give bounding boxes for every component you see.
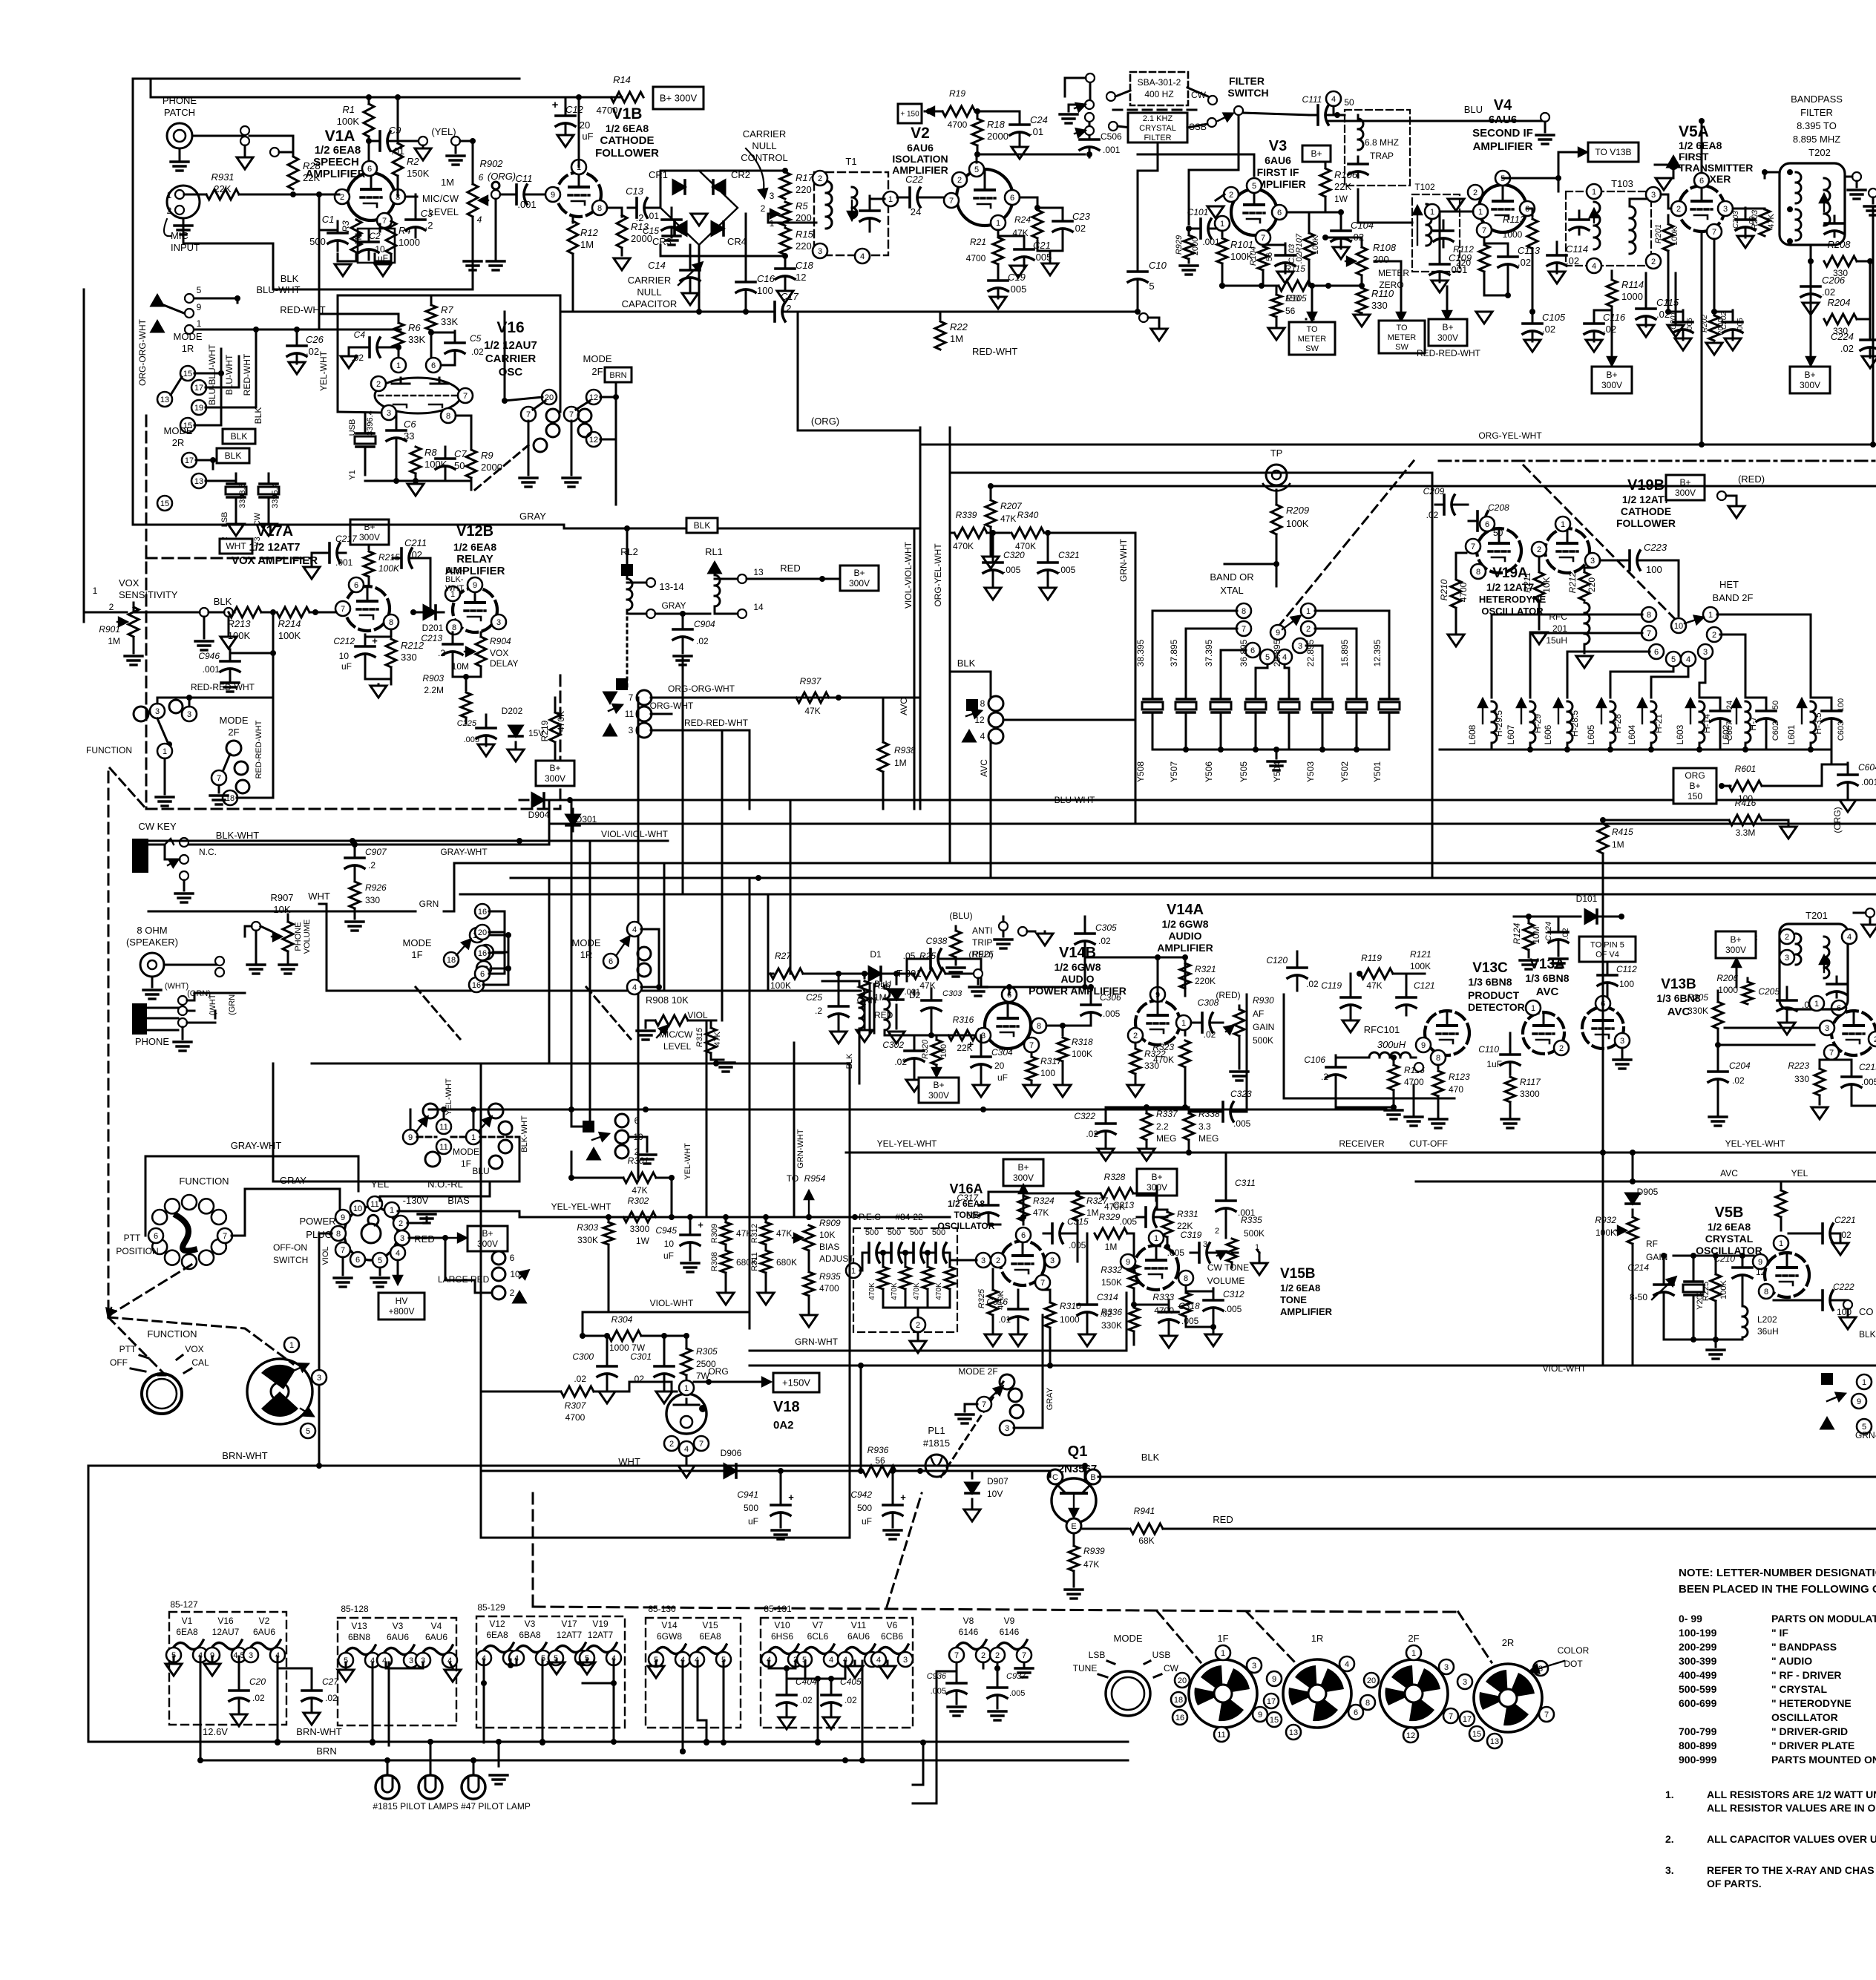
svg-text:VIOL: VIOL (687, 1010, 708, 1020)
svg-text:6: 6 (1354, 1708, 1358, 1717)
svg-text:1R: 1R (182, 343, 194, 354)
svg-text:1/2 12AT7: 1/2 12AT7 (1622, 494, 1670, 505)
ground (228, 508, 244, 536)
capacitor C1 (309, 194, 347, 251)
svg-text:C314: C314 (1097, 1292, 1118, 1302)
pin 2 t201 (1780, 929, 1794, 944)
svg-text:+: + (356, 229, 362, 241)
svg-text:PHONE: PHONE (163, 95, 197, 106)
svg-text:T102: T102 (1414, 182, 1435, 192)
label RF GAIN (1646, 1239, 1667, 1262)
wire vert 648 (480, 1063, 482, 1538)
pin 4 pp (390, 1245, 405, 1260)
svg-text:H-29.5: H-29.5 (1494, 710, 1504, 737)
svg-text:OSC: OSC (499, 366, 523, 378)
svg-text:ORG-WHT: ORG-WHT (650, 701, 694, 711)
pin 2 (371, 376, 386, 391)
socket V4 (416, 1621, 457, 1668)
pin 7 (1477, 223, 1492, 237)
label CONN right (1859, 1306, 1874, 1317)
resistor R201 (1654, 215, 1679, 315)
svg-text:C104: C104 (1351, 220, 1374, 231)
svg-text:C304: C304 (991, 1047, 1013, 1058)
crystal Y501 (1372, 639, 1400, 782)
label FUNCTION (86, 745, 132, 755)
svg-text:C: C (1052, 1473, 1058, 1482)
svg-text:B+: B+ (1017, 1162, 1029, 1173)
capacitors PEC 500 (860, 1228, 948, 1271)
wire mode2r (196, 457, 236, 481)
svg-text:R210: R210 (1439, 579, 1449, 600)
svg-text:CATHODE: CATHODE (600, 134, 654, 147)
contact 3a (150, 698, 165, 718)
svg-text:3: 3 (1651, 191, 1656, 200)
label (WHT) (GRN) speaker (165, 982, 211, 998)
svg-text:GRAY: GRAY (661, 600, 686, 611)
svg-text:3: 3 (496, 618, 501, 627)
svg-text:" DRIVER PLATE: " DRIVER PLATE (1771, 1740, 1854, 1751)
pin 2 (813, 171, 827, 186)
wire 129 wiring (481, 1659, 617, 1745)
label R902 (ORG) (479, 158, 516, 182)
svg-text:PHONE: PHONE (294, 922, 303, 951)
pin 1 (1473, 204, 1488, 219)
svg-text:15: 15 (160, 499, 169, 508)
svg-text:.005: .005 (464, 735, 479, 744)
capacitor C303 (905, 988, 963, 1021)
socket V3 (377, 1621, 419, 1668)
vertical label Y3 (253, 537, 262, 546)
pot R5 (761, 191, 812, 229)
svg-text:12AU7: 12AU7 (212, 1627, 240, 1637)
plug circle (344, 1207, 398, 1260)
vertical label VIOL pp (321, 1246, 330, 1265)
svg-text:H-7: H-7 (1748, 716, 1758, 731)
ground (969, 987, 987, 996)
svg-text:R24: R24 (1014, 214, 1031, 225)
vertical label AVC x (979, 759, 989, 777)
svg-text:C11: C11 (516, 173, 533, 184)
inductor L604 (1627, 699, 1664, 750)
socket V2 (243, 1616, 285, 1662)
svg-text:9: 9 (197, 302, 202, 312)
ground (983, 557, 999, 568)
svg-text:10M: 10M (1531, 926, 1541, 943)
ground (678, 1466, 695, 1478)
svg-text:MIC/CW: MIC/CW (659, 1029, 693, 1040)
ground (1536, 135, 1554, 144)
ground (777, 291, 793, 303)
svg-text:1: 1 (1561, 520, 1565, 529)
note row (1679, 1697, 1852, 1709)
pin 1 (571, 160, 586, 174)
label VIOL mid (687, 1010, 708, 1020)
svg-text:BRN-WHT: BRN-WHT (296, 1726, 341, 1737)
svg-text:CR1: CR1 (649, 169, 668, 180)
svg-text:L601: L601 (1786, 724, 1797, 744)
resistor R936 (863, 1445, 972, 1476)
diode D301 (566, 809, 597, 831)
svg-text:Y503: Y503 (1305, 761, 1316, 782)
ground (1520, 960, 1538, 969)
svg-text:10K: 10K (1541, 577, 1552, 592)
contact col 6 (492, 1251, 515, 1265)
ground (174, 1042, 191, 1051)
svg-text:.005: .005 (1233, 1118, 1251, 1129)
ground (1586, 340, 1602, 352)
transformer T103 box (1566, 178, 1651, 266)
pin 3 ptt (312, 1370, 327, 1385)
switch arm fn (157, 718, 172, 747)
pin 8 (447, 620, 462, 635)
svg-text:.001: .001 (517, 199, 536, 210)
connector (451, 137, 476, 153)
wire org-org-wht (132, 524, 134, 526)
pin dots T202 (1787, 169, 1793, 244)
wire T103 (1630, 199, 1647, 206)
svg-text:C120: C120 (1266, 955, 1288, 966)
svg-text:N.O.-RL: N.O.-RL (427, 1179, 463, 1190)
svg-text:T103: T103 (1611, 178, 1633, 189)
ground (1725, 338, 1741, 350)
svg-text:3: 3 (400, 1234, 404, 1243)
svg-text:uF: uF (862, 1516, 872, 1527)
svg-text:4: 4 (829, 1656, 833, 1665)
pin 7 v16a (1035, 1275, 1050, 1290)
contact 12x (974, 712, 1003, 727)
diode D904 (519, 793, 586, 820)
wire socket 128 drops (370, 1662, 389, 1745)
wire m2f (210, 698, 273, 804)
wire C9 to R2 (399, 140, 422, 142)
svg-text:12.395: 12.395 (1372, 639, 1383, 666)
pot R108 meter zero (1322, 235, 1409, 290)
wire cathode (379, 224, 381, 232)
resistor R215 (364, 545, 400, 577)
wire col (445, 1238, 492, 1293)
ground (1161, 1336, 1177, 1348)
svg-text:BRN: BRN (316, 1745, 336, 1757)
svg-text:11: 11 (625, 709, 634, 719)
resistor R? v5b (1776, 1181, 1786, 1230)
contact 3 xtal (1293, 638, 1308, 653)
lamp #1815 a (375, 1775, 399, 1799)
wire bus 1495 (429, 1107, 1386, 1112)
contact right3 (1821, 1418, 1872, 1434)
label RL2 (620, 546, 638, 557)
svg-text:YEL-WHT: YEL-WHT (318, 350, 329, 391)
svg-text:1000: 1000 (399, 237, 420, 248)
svg-text:R211: R211 (1522, 572, 1532, 593)
box 85-131 (761, 1604, 913, 1728)
svg-text:.2: .2 (815, 1006, 822, 1016)
wire bus E (148, 863, 454, 911)
svg-text:L607: L607 (1506, 724, 1516, 744)
svg-text:.005: .005 (1103, 1009, 1121, 1019)
resistor R21 (966, 230, 1003, 264)
svg-text:CARRIER: CARRIER (628, 275, 672, 286)
svg-text:RED: RED (1213, 1514, 1233, 1525)
ground (1277, 270, 1293, 283)
svg-text:2: 2 (510, 1288, 515, 1298)
svg-text:500: 500 (865, 1228, 879, 1237)
svg-text:47K: 47K (776, 1228, 792, 1239)
svg-text:3: 3 (1298, 642, 1302, 651)
svg-text:3.3M: 3.3M (1736, 827, 1756, 838)
capacitor C112 (1598, 962, 1637, 998)
svg-text:BLK-: BLK- (1859, 1329, 1876, 1340)
svg-text:3: 3 (770, 191, 775, 201)
svg-text:6AU6: 6AU6 (425, 1632, 447, 1642)
svg-text:V9: V9 (1004, 1616, 1015, 1626)
resistor R3 (341, 220, 364, 252)
label V13A (1525, 957, 1569, 998)
svg-text:.001: .001 (335, 557, 353, 568)
inductor L605 (1586, 699, 1623, 750)
label OFF-ON SWITCH (273, 1242, 308, 1265)
wire coil 6 (1567, 652, 1650, 698)
ground (156, 797, 174, 806)
contact 6 het (1649, 644, 1664, 659)
switch marks (604, 678, 628, 735)
label V16A (938, 1181, 995, 1231)
contact 7 het (1641, 626, 1656, 640)
svg-text:8: 8 (1476, 568, 1480, 577)
pin 7 (944, 193, 959, 208)
contact 4 het (1681, 652, 1696, 666)
resistor R931 (184, 171, 319, 200)
label BLU (1464, 104, 1483, 115)
rotary 2F (1360, 1633, 1458, 1743)
svg-text:AMPLIFIER: AMPLIFIER (892, 164, 948, 176)
svg-text:C222: C222 (1833, 1282, 1854, 1292)
box 85-127 (169, 1599, 286, 1725)
svg-text:R19: R19 (949, 88, 965, 99)
svg-text:.005: .005 (1224, 1304, 1242, 1314)
pin 6 pp (350, 1252, 365, 1267)
ground (195, 617, 213, 650)
svg-text:BLK: BLK (957, 658, 976, 669)
svg-text:R304: R304 (611, 1314, 633, 1325)
contact 1 het (1703, 607, 1718, 622)
wire xtal 8 (1152, 611, 1237, 672)
svg-text:C16: C16 (757, 273, 775, 284)
svg-text:33K: 33K (408, 334, 425, 345)
wire V5A in (1661, 194, 1671, 209)
ground (231, 1714, 247, 1726)
wire grnwht vert (793, 1043, 796, 1217)
svg-text:470: 470 (1449, 1084, 1463, 1095)
svg-text:85-130: 85-130 (648, 1604, 676, 1614)
switch MODE 2F bot (958, 1366, 997, 1377)
svg-text:56: 56 (1265, 252, 1274, 261)
svg-text:C201: C201 (1670, 312, 1678, 330)
svg-text:" BANDPASS: " BANDPASS (1771, 1641, 1837, 1653)
svg-text:85-129: 85-129 (477, 1602, 505, 1613)
resistor R211 (1522, 557, 1552, 629)
inductor L606 (1543, 699, 1580, 750)
ground (1675, 338, 1691, 350)
svg-text:300V: 300V (849, 578, 870, 589)
capacitor C323 (1189, 994, 1252, 1129)
svg-text:1/2 6EA8: 1/2 6EA8 (453, 541, 497, 553)
svg-text:PTT: PTT (124, 1233, 141, 1243)
svg-text:HET: HET (1719, 579, 1739, 590)
svg-text:uF: uF (663, 1250, 674, 1261)
svg-text:100: 100 (1040, 1068, 1055, 1078)
rotary 2R (1457, 1637, 1554, 1748)
svg-text:MEG: MEG (1198, 1133, 1219, 1144)
svg-text:C300: C300 (572, 1351, 594, 1362)
label RECEIVER CUT-OFF (1339, 1138, 1448, 1149)
switch MODE 1F mid-left (403, 937, 432, 960)
box B+300V rl (840, 566, 879, 591)
capacitor C907 (345, 846, 387, 880)
pin 6 (349, 577, 364, 592)
wire dash gang2 (1521, 463, 1676, 620)
ground (171, 148, 188, 171)
svg-text:8: 8 (389, 618, 393, 627)
svg-text:200-299: 200-299 (1679, 1641, 1717, 1653)
contact 5 (185, 285, 202, 303)
resistor R117 (1505, 1077, 1541, 1117)
wire osc bottom (365, 473, 471, 490)
svg-text:.005: .005 (1008, 283, 1026, 295)
resistor R305 (681, 1336, 718, 1382)
svg-text:3: 3 (1785, 954, 1789, 963)
svg-text:C21: C21 (1033, 240, 1051, 251)
svg-text:R937: R937 (800, 676, 822, 686)
capacitor C217 (312, 534, 358, 568)
wire relay top (624, 525, 630, 564)
label GRAY p (280, 1175, 306, 1186)
svg-text:C938: C938 (926, 936, 948, 946)
svg-text:100K: 100K (1670, 226, 1679, 245)
ground (1055, 1085, 1071, 1097)
connector anti2 (1018, 927, 1035, 936)
pin 3 (1820, 1020, 1834, 1035)
svg-text:V10: V10 (774, 1620, 790, 1630)
socket V16 (205, 1616, 246, 1662)
socket V11 (838, 1620, 879, 1667)
svg-text:8: 8 (336, 1230, 341, 1239)
wire org-wht (651, 714, 750, 809)
resistor R308 (710, 1250, 757, 1291)
wire anti trip link (1003, 916, 1005, 918)
label RED rl (780, 563, 800, 574)
svg-text:D905: D905 (1637, 1187, 1659, 1197)
svg-text:100K: 100K (1311, 235, 1320, 254)
pin 2 pp (393, 1216, 408, 1230)
svg-text:V4: V4 (1494, 97, 1512, 114)
label PRODUCT DETECTOR (1468, 989, 1525, 1013)
capacitor C5 (431, 331, 484, 365)
label LSB USB (1073, 1650, 1179, 1677)
svg-text:R902: R902 (479, 158, 503, 169)
wire red-red-wht (157, 653, 273, 701)
contact 11 m1f (436, 1119, 451, 1134)
wire t201 b (1733, 958, 1741, 987)
svg-text:R25: R25 (919, 951, 936, 961)
svg-text:2: 2 (916, 1321, 920, 1330)
svg-text:100K: 100K (278, 630, 301, 641)
svg-text:6146: 6146 (959, 1627, 979, 1637)
svg-text:B+: B+ (853, 568, 865, 578)
wire dash diag3 (1247, 1612, 1295, 1662)
ground (906, 1080, 922, 1092)
box B+300V v19 (1666, 475, 1705, 500)
ground (341, 356, 357, 368)
svg-text:RFC101: RFC101 (1364, 1024, 1400, 1035)
svg-text:GRN-: GRN- (1855, 1430, 1876, 1440)
label R115 value (0, 0, 1, 1)
svg-text:1M: 1M (580, 239, 594, 250)
svg-text:.005: .005 (1120, 1216, 1138, 1227)
svg-text:CAPACITOR: CAPACITOR (622, 298, 678, 309)
svg-text:C945: C945 (655, 1225, 677, 1236)
wire avc down (990, 741, 992, 878)
svg-text:C323: C323 (1230, 1089, 1252, 1099)
svg-text:3393.6: 3393.6 (238, 483, 247, 508)
wire vert 895 (663, 863, 666, 991)
svg-text:R909: R909 (819, 1218, 841, 1228)
svg-text:300V: 300V (1601, 380, 1622, 390)
ground (1342, 1020, 1359, 1032)
wire vert r27 (768, 973, 773, 975)
ground (1037, 931, 1053, 945)
svg-text:VOLUME: VOLUME (303, 919, 312, 954)
vertical label BLK v16 (253, 407, 263, 424)
label BRN (316, 1745, 336, 1757)
svg-text:R324: R324 (1033, 1196, 1055, 1206)
svg-text:R206: R206 (1716, 973, 1738, 983)
svg-text:2: 2 (996, 1256, 1000, 1265)
svg-text:CRYSTAL: CRYSTAL (1139, 124, 1176, 133)
contact 16c m1fl (469, 977, 484, 992)
ground (1862, 356, 1876, 368)
svg-text:METER: METER (1298, 335, 1327, 344)
svg-text:47K: 47K (1083, 1559, 1099, 1570)
svg-text:56: 56 (875, 1455, 885, 1466)
svg-text:16: 16 (1175, 1714, 1184, 1722)
svg-text:ALL CAPACITOR VALUES OVER U: ALL CAPACITOR VALUES OVER U (1707, 1833, 1876, 1845)
vertical label RED-RED-WHT (255, 720, 263, 778)
svg-text:2: 2 (1473, 189, 1477, 197)
svg-text:.02: .02 (325, 1693, 338, 1703)
wire bus C (511, 875, 1876, 881)
pin 6 v16a (1016, 1227, 1031, 1242)
pin 6 (426, 358, 441, 373)
ground (1779, 1023, 1795, 1035)
svg-text:Q1: Q1 (1068, 1443, 1088, 1460)
svg-text:4700: 4700 (1458, 582, 1469, 602)
capacitor C302 (882, 1035, 924, 1078)
inductor L607 (1506, 699, 1543, 750)
resistor R210 (1439, 553, 1469, 632)
ground (637, 1031, 655, 1040)
resistor R340 (1011, 510, 1069, 551)
pin 2 (952, 172, 967, 187)
svg-text:500: 500 (744, 1503, 758, 1513)
wire right edge vert (1870, 223, 1876, 448)
svg-text:2: 2 (1215, 1227, 1219, 1236)
svg-text:2000: 2000 (1191, 237, 1200, 255)
note row (1679, 1655, 1812, 1667)
wire pin4 down (394, 1260, 402, 1284)
resistor R16 (859, 971, 891, 1029)
svg-text:.02: .02 (306, 346, 319, 357)
resistor R328 (1075, 1172, 1156, 1212)
